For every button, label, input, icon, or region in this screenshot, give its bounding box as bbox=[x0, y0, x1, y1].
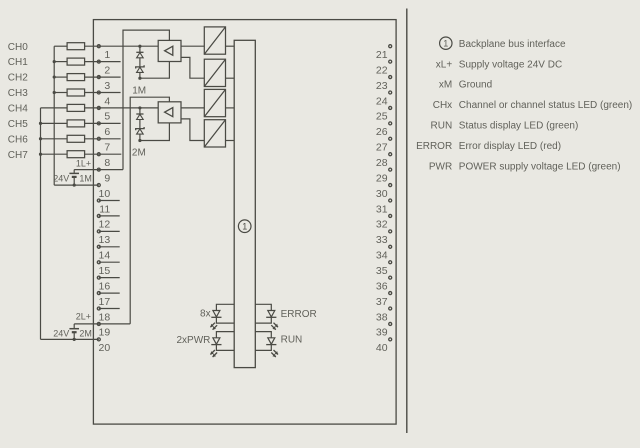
pin 21 bbox=[376, 45, 392, 61]
wire CH2 from rail to resistor bbox=[54, 76, 67, 78]
svg-text:33: 33 bbox=[376, 234, 388, 246]
svg-text:CH0: CH0 bbox=[8, 42, 28, 53]
svg-text:CH5: CH5 bbox=[8, 119, 28, 130]
pin 26 bbox=[376, 122, 392, 138]
resistor R4 (channel CH4) bbox=[67, 104, 85, 111]
svg-text:PWR: PWR bbox=[429, 162, 452, 173]
svg-text:8x: 8x bbox=[200, 309, 211, 320]
svg-text:CH2: CH2 bbox=[8, 73, 28, 84]
svg-text:35: 35 bbox=[376, 265, 388, 277]
svg-text:27: 27 bbox=[376, 142, 388, 154]
junction on rail at row 2 bbox=[53, 60, 56, 63]
svg-text:CHx: CHx bbox=[433, 100, 452, 111]
wire CH1 from rail to resistor bbox=[54, 61, 67, 63]
svg-text:2L+: 2L+ bbox=[76, 311, 91, 321]
svg-text:37: 37 bbox=[376, 296, 388, 308]
LED RUN bbox=[255, 332, 278, 357]
pin 23 bbox=[376, 76, 392, 92]
wire rail A (group 1 common, CH0-CH3) bbox=[53, 46, 55, 185]
svg-text:13: 13 bbox=[99, 234, 111, 246]
svg-text:CH1: CH1 bbox=[8, 57, 28, 68]
pin 5 bbox=[97, 106, 110, 122]
junction battery 1 negative to row 10 bbox=[73, 183, 76, 186]
svg-text:24: 24 bbox=[376, 95, 388, 107]
pin 30 bbox=[376, 184, 392, 200]
svg-text:4: 4 bbox=[104, 95, 110, 107]
wire CH5 from rail to resistor bbox=[41, 122, 68, 124]
wire OC3 output to backplane bus bbox=[226, 107, 235, 109]
svg-text:1: 1 bbox=[443, 39, 448, 49]
junction on rail at row 7 bbox=[39, 137, 42, 140]
svg-text:CH6: CH6 bbox=[8, 134, 28, 145]
wire row 20 (2M) bbox=[41, 338, 99, 340]
wire OC1 output to backplane bus bbox=[226, 45, 235, 47]
svg-text:1: 1 bbox=[104, 49, 110, 61]
svg-text:ERROR: ERROR bbox=[416, 141, 452, 152]
resistor R3 (channel CH3) bbox=[67, 89, 85, 96]
wire between D2 and Z2 bbox=[139, 120, 141, 129]
optocoupler OC2 (isolation barrier) bbox=[204, 59, 225, 86]
svg-text:6: 6 bbox=[104, 126, 110, 138]
junction node row 1 / diode chain 1 bbox=[138, 45, 141, 48]
svg-text:24V: 24V bbox=[53, 173, 69, 183]
LED CHx status (8x) bbox=[210, 304, 234, 329]
module outline (terminal block boundary) bbox=[93, 20, 396, 425]
wire CH4 row to input amplifier bbox=[85, 107, 159, 109]
svg-text:17: 17 bbox=[99, 296, 111, 308]
pin 10 bbox=[97, 184, 110, 200]
svg-text:9: 9 bbox=[104, 172, 110, 184]
svg-text:31: 31 bbox=[376, 203, 388, 215]
svg-text:CH4: CH4 bbox=[8, 104, 28, 115]
pin 34 bbox=[376, 245, 392, 261]
resistor R6 (channel CH6) bbox=[67, 135, 85, 142]
svg-text:24V: 24V bbox=[53, 329, 69, 339]
pin 4 bbox=[97, 91, 110, 107]
wire CH4 from rail to resistor bbox=[41, 107, 68, 109]
backplane bus interface symbol (circled 1) bbox=[238, 220, 251, 233]
svg-text:xL+: xL+ bbox=[436, 59, 453, 70]
pin 31 bbox=[376, 199, 392, 215]
pin 36 bbox=[376, 276, 392, 292]
svg-text:1: 1 bbox=[242, 222, 247, 232]
wire 1L+ (pin 9 row) bbox=[74, 169, 123, 171]
resistor R2 (channel CH2) bbox=[67, 74, 85, 81]
resistor R7 (channel CH7) bbox=[67, 151, 85, 158]
op-amp U1 (input amplifier group 1) bbox=[158, 40, 181, 61]
optocoupler OC1 (isolation barrier) bbox=[204, 27, 225, 54]
wire 1L+ bus to amplifier U1 supply bbox=[123, 30, 169, 170]
wire diode chain 2 top lead bbox=[139, 108, 141, 114]
optocoupler OC4 (isolation barrier) bbox=[204, 120, 225, 147]
svg-text:2xPWR: 2xPWR bbox=[176, 335, 210, 346]
resistor R5 (channel CH5) bbox=[67, 120, 85, 127]
svg-text:xM: xM bbox=[439, 80, 452, 91]
svg-text:Backplane bus interface: Backplane bus interface bbox=[459, 39, 566, 50]
svg-text:22: 22 bbox=[376, 64, 388, 76]
junction node 2M (group 2) bbox=[138, 139, 141, 142]
zener diode Z2 (group 2) bbox=[136, 127, 144, 130]
svg-text:ERROR: ERROR bbox=[281, 309, 317, 320]
svg-text:40: 40 bbox=[376, 342, 388, 354]
svg-text:1L+: 1L+ bbox=[76, 158, 91, 168]
svg-text:Channel or channel status LED: Channel or channel status LED (green) bbox=[459, 100, 632, 111]
LED PWR supply (2xPWR) bbox=[210, 332, 234, 357]
wire pin 15 stub bbox=[99, 261, 120, 263]
junction on rail at row 3 bbox=[53, 75, 56, 78]
wire CH6 row stub inside module bbox=[85, 138, 121, 140]
pin 13 bbox=[97, 230, 110, 246]
pin 3 bbox=[97, 76, 110, 92]
svg-text:2M: 2M bbox=[79, 329, 92, 339]
zener diode Z1 (group 1) bbox=[136, 65, 144, 68]
svg-text:32: 32 bbox=[376, 219, 388, 231]
wire CH0 row to input amplifier bbox=[85, 45, 159, 47]
backplane connector line (far right) bbox=[406, 9, 408, 434]
wire CH7 from rail to resistor bbox=[41, 153, 68, 155]
wire OC4 output to backplane bus bbox=[226, 140, 235, 142]
svg-text:15: 15 bbox=[99, 265, 111, 277]
legend symbol circled 1 bbox=[440, 37, 452, 49]
svg-text:28: 28 bbox=[376, 157, 388, 169]
pin 39 bbox=[376, 322, 392, 338]
wire 2L+ (pin 19 row) bbox=[74, 323, 130, 325]
svg-text:26: 26 bbox=[376, 126, 388, 138]
svg-text:16: 16 bbox=[99, 280, 111, 292]
svg-text:3: 3 bbox=[104, 80, 110, 92]
wire CH3 from rail to resistor bbox=[54, 92, 67, 94]
wire 1M to amplifier U1 ground bbox=[140, 62, 170, 79]
pin 11 bbox=[97, 199, 110, 215]
pin 28 bbox=[376, 153, 392, 169]
pin 7 bbox=[97, 137, 110, 153]
pin 32 bbox=[376, 214, 392, 230]
pin 27 bbox=[376, 137, 392, 153]
wire U2 output to optocoupler OC3 bbox=[181, 107, 204, 109]
wire pin 11 stub bbox=[99, 200, 120, 202]
resistor R1 (channel CH1) bbox=[67, 58, 85, 65]
svg-text:5: 5 bbox=[104, 111, 110, 123]
svg-text:34: 34 bbox=[376, 250, 388, 262]
pin 29 bbox=[376, 168, 392, 184]
pin 6 bbox=[97, 122, 110, 138]
svg-text:1M: 1M bbox=[132, 86, 146, 97]
svg-text:20: 20 bbox=[99, 342, 111, 354]
pin 16 bbox=[97, 276, 110, 292]
svg-text:RUN: RUN bbox=[431, 121, 453, 132]
svg-text:19: 19 bbox=[99, 327, 111, 339]
wire pin 18 stub bbox=[99, 308, 120, 310]
svg-text:25: 25 bbox=[376, 111, 388, 123]
wire row 10 (1M) bbox=[54, 184, 99, 186]
wire Z2 bottom lead bbox=[139, 134, 141, 140]
svg-text:12: 12 bbox=[99, 219, 111, 231]
svg-text:2: 2 bbox=[104, 64, 110, 76]
svg-text:23: 23 bbox=[376, 80, 388, 92]
svg-text:38: 38 bbox=[376, 311, 388, 323]
svg-text:Status display LED (green): Status display LED (green) bbox=[459, 121, 579, 132]
wire 2L+ bus to amplifier U2 supply bbox=[130, 97, 169, 324]
battery 24V source 2 (24V / 2M) bbox=[73, 324, 75, 328]
wire CH1 row stub inside module bbox=[85, 61, 121, 63]
svg-text:7: 7 bbox=[104, 142, 110, 154]
pin 17 bbox=[97, 292, 110, 308]
pin 22 bbox=[376, 60, 392, 76]
wire diode chain 1 top lead bbox=[139, 46, 141, 52]
wire CH5 row stub inside module bbox=[85, 122, 121, 124]
wire CH3 row stub inside module bbox=[85, 92, 121, 94]
pin 35 bbox=[376, 261, 392, 277]
junction node row 5 / diode chain 2 bbox=[138, 106, 141, 109]
svg-text:18: 18 bbox=[99, 311, 111, 323]
wire U1 output to optocoupler OC1 bbox=[181, 45, 204, 47]
junction battery 2 negative to row 20 bbox=[73, 338, 76, 341]
wire pin 17 stub bbox=[99, 292, 120, 294]
wire U2 output to optocoupler OC4 bbox=[181, 119, 204, 141]
svg-text:8: 8 bbox=[104, 157, 110, 169]
pin 8 bbox=[97, 153, 110, 169]
optocoupler OC3 (isolation barrier) bbox=[204, 89, 225, 116]
battery 24V source 1 (24V / 1M) bbox=[73, 170, 75, 173]
wire OC2 output to backplane bus bbox=[226, 77, 235, 79]
pin 15 bbox=[97, 261, 110, 277]
junction node 1M (group 1) bbox=[138, 77, 141, 80]
svg-text:21: 21 bbox=[376, 49, 388, 61]
pin 24 bbox=[376, 91, 392, 107]
junction on rail at row 4 bbox=[53, 91, 56, 94]
pin 12 bbox=[97, 214, 110, 230]
junction on rail at row 6 bbox=[39, 122, 42, 125]
svg-text:CH3: CH3 bbox=[8, 88, 28, 99]
svg-text:29: 29 bbox=[376, 172, 388, 184]
wire pin 12 stub bbox=[99, 215, 120, 217]
pin 1 bbox=[97, 45, 110, 61]
pin 25 bbox=[376, 106, 392, 122]
svg-text:Ground: Ground bbox=[459, 80, 492, 91]
svg-text:39: 39 bbox=[376, 327, 388, 339]
wire pin 16 stub bbox=[99, 277, 120, 279]
pin 19 bbox=[97, 322, 110, 338]
pin 40 bbox=[376, 338, 392, 354]
wire CH0 from rail to resistor bbox=[54, 45, 67, 47]
svg-text:CH7: CH7 bbox=[8, 150, 28, 161]
svg-text:Error display LED (red): Error display LED (red) bbox=[459, 141, 561, 152]
wire pin 14 stub bbox=[99, 246, 120, 248]
wire U1 output to optocoupler OC2 bbox=[181, 57, 204, 78]
svg-text:POWER supply voltage LED (gree: POWER supply voltage LED (green) bbox=[459, 162, 621, 173]
pin 9 bbox=[97, 168, 110, 184]
pin 33 bbox=[376, 230, 392, 246]
resistor R0 (channel CH0) bbox=[67, 43, 85, 50]
wire CH7 row stub inside module bbox=[85, 153, 122, 155]
svg-text:10: 10 bbox=[99, 188, 111, 200]
wire rail B (group 2 common, CH4-CH7) bbox=[40, 108, 42, 340]
wire CH6 from rail to resistor bbox=[41, 138, 68, 140]
svg-text:14: 14 bbox=[99, 250, 111, 262]
pin 2 bbox=[97, 60, 110, 76]
pin 20 bbox=[97, 338, 110, 354]
junction on rail at row 8 bbox=[39, 153, 42, 156]
wire pin 13 stub bbox=[99, 230, 120, 232]
op-amp U2 (input amplifier group 2) bbox=[158, 102, 181, 123]
pin 37 bbox=[376, 292, 392, 308]
pin 18 bbox=[97, 307, 110, 323]
diode D2 (group 2) bbox=[136, 113, 143, 115]
svg-text:11: 11 bbox=[99, 203, 110, 215]
wire 2M to amplifier U2 ground bbox=[140, 123, 170, 141]
pin 38 bbox=[376, 307, 392, 323]
svg-text:2M: 2M bbox=[132, 148, 146, 159]
wire between D1 and Z1 bbox=[139, 58, 141, 67]
diode D1 (group 1) bbox=[136, 51, 143, 53]
wire Z1 bottom lead bbox=[139, 72, 141, 78]
svg-text:30: 30 bbox=[376, 188, 388, 200]
backplane bus bar bbox=[234, 40, 255, 367]
svg-text:RUN: RUN bbox=[281, 335, 303, 346]
pin 14 bbox=[97, 245, 110, 261]
svg-text:1M: 1M bbox=[79, 173, 92, 183]
svg-text:Supply voltage 24V DC: Supply voltage 24V DC bbox=[459, 59, 562, 70]
LED ERROR bbox=[255, 304, 278, 329]
svg-text:36: 36 bbox=[376, 280, 388, 292]
wire CH2 row stub inside module bbox=[85, 76, 121, 78]
